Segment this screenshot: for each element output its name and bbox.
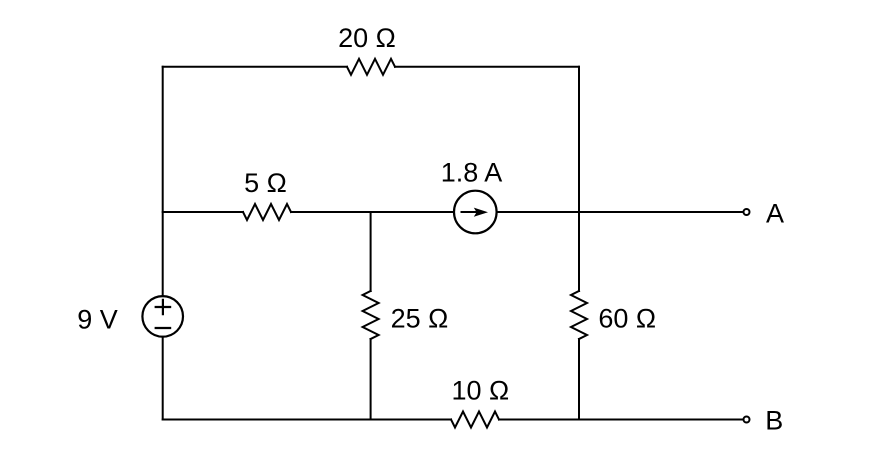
svg-text:10 Ω: 10 Ω (451, 376, 509, 406)
svg-text:1.8 A: 1.8 A (441, 158, 503, 188)
resistor 10ohm zigzag (451, 412, 499, 428)
svg-text:A: A (766, 199, 784, 229)
resistor 20ohm zigzag (347, 59, 395, 75)
svg-text:5 Ω: 5 Ω (244, 168, 287, 198)
svg-text:9 V: 9 V (77, 304, 118, 334)
resistor 25ohm zigzag (363, 291, 379, 339)
svg-text:B: B (765, 406, 783, 436)
I1 arrow shaft (462, 211, 478, 213)
resistor 5ohm zigzag (243, 204, 291, 220)
wire bottom-right to B (499, 419, 743, 421)
wire top-right (395, 66, 579, 68)
terminal node A circle (744, 209, 750, 215)
wire left-vertical lower (162, 337, 164, 420)
wire 25ohm-branch upper (370, 212, 372, 291)
wire top-left (163, 66, 347, 68)
wire right-vertical upper (578, 67, 580, 291)
wire middle-right to A (497, 211, 743, 213)
terminal node B circle (744, 417, 750, 423)
V1 plus sign (156, 300, 170, 314)
wire middle-center (291, 211, 454, 213)
svg-text:25 Ω: 25 Ω (391, 303, 449, 333)
I1 arrowhead (474, 208, 488, 217)
svg-text:60 Ω: 60 Ω (598, 304, 656, 334)
wire right-vertical lower (578, 339, 580, 420)
wire middle-left (163, 211, 243, 213)
voltage source V1 9V circle (142, 296, 183, 337)
V1 minus sign (156, 327, 170, 329)
wire 25ohm-branch lower (370, 339, 372, 420)
svg-text:20 Ω: 20 Ω (338, 23, 396, 53)
current source I1 1.8A circle (454, 191, 497, 234)
resistor 60ohm zigzag (571, 291, 587, 339)
wire bottom-left (163, 419, 451, 421)
wire left-vertical upper (162, 67, 164, 296)
